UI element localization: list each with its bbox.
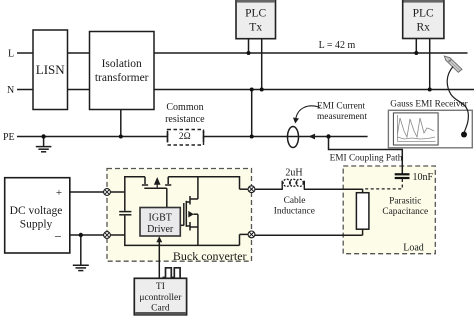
- svg-text:DC voltage: DC voltage: [10, 205, 63, 217]
- svg-text:Supply: Supply: [20, 219, 53, 231]
- svg-text:Parasitic: Parasitic: [389, 197, 421, 207]
- svg-text:Card: Card: [151, 304, 170, 314]
- svg-text:measurement: measurement: [317, 112, 367, 122]
- svg-text:Rx: Rx: [416, 22, 430, 34]
- svg-text:L = 42 m: L = 42 m: [319, 40, 356, 51]
- svg-text:−: −: [54, 229, 61, 244]
- svg-text:Inductance: Inductance: [274, 206, 315, 216]
- svg-text:PLC: PLC: [413, 8, 434, 20]
- svg-text:PLC: PLC: [245, 8, 266, 20]
- svg-text:PE: PE: [3, 132, 15, 143]
- svg-text:Common: Common: [166, 102, 203, 113]
- svg-text:TI: TI: [156, 282, 165, 292]
- svg-text:2uH: 2uH: [285, 168, 302, 179]
- svg-text:Gauss EMI Receiver: Gauss EMI Receiver: [390, 100, 468, 110]
- svg-text:LISN: LISN: [36, 62, 66, 77]
- svg-text:Buck converter: Buck converter: [173, 249, 247, 263]
- svg-text:Tx: Tx: [249, 22, 262, 34]
- svg-text:N: N: [7, 85, 14, 96]
- svg-text:Isolation: Isolation: [102, 58, 142, 70]
- svg-text:μcontroller: μcontroller: [139, 293, 182, 303]
- svg-text:Load: Load: [403, 243, 424, 254]
- svg-text:L: L: [8, 49, 14, 60]
- svg-text:2Ω: 2Ω: [179, 132, 191, 142]
- svg-text:+: +: [56, 187, 62, 199]
- svg-text:resistance: resistance: [165, 114, 205, 125]
- svg-text:Cable: Cable: [284, 196, 306, 206]
- svg-text:transformer: transformer: [95, 72, 149, 84]
- svg-text:EMI Current: EMI Current: [317, 101, 366, 111]
- svg-text:Driver: Driver: [147, 224, 174, 235]
- svg-text:Capacitance: Capacitance: [382, 207, 428, 217]
- svg-text:IGBT: IGBT: [149, 213, 172, 224]
- svg-text:EMI Coupling Path: EMI Coupling Path: [330, 154, 403, 164]
- svg-text:10nF: 10nF: [413, 172, 434, 183]
